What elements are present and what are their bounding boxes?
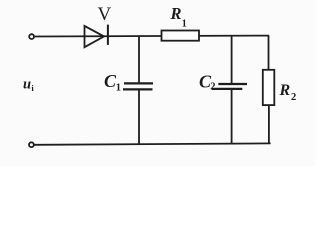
- svg-text:2: 2: [210, 82, 215, 93]
- svg-text:1: 1: [182, 19, 187, 30]
- svg-text:i: i: [31, 83, 34, 93]
- svg-text:u: u: [23, 77, 31, 93]
- svg-text:2: 2: [291, 92, 296, 103]
- svg-text:1: 1: [116, 83, 121, 94]
- svg-text:V: V: [98, 4, 112, 25]
- svg-text:R: R: [170, 4, 182, 23]
- svg-text:R: R: [279, 82, 291, 99]
